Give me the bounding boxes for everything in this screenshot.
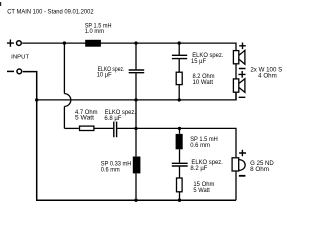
node junction top x136 xyxy=(134,41,137,44)
svg-text:5 Watt: 5 Watt xyxy=(75,115,94,121)
svg-text:2x W 100 S: 2x W 100 S xyxy=(250,67,282,73)
wire series link tweeters xyxy=(235,64,237,79)
speaker tweeter 1 W100S box xyxy=(233,51,238,64)
speaker tweeter 1 cone xyxy=(239,50,245,64)
resistor R 15 Ohm 5 Watt xyxy=(177,178,183,192)
node junction top x64 xyxy=(63,41,66,44)
svg-text:1.0 mm: 1.0 mm xyxy=(85,29,104,35)
svg-text:6.8 µF: 6.8 µF xyxy=(104,116,121,122)
wire xyxy=(117,127,136,129)
wire tweeter2 to return xyxy=(235,93,237,101)
svg-text:15 µF: 15 µF xyxy=(191,59,206,65)
wire minus lead and bottom rail xyxy=(23,72,236,201)
svg-text:INPUT: INPUT xyxy=(11,54,29,60)
svg-text:0.6 mm: 0.6 mm xyxy=(190,143,210,149)
wire hop over crossing xyxy=(64,94,70,107)
wire branch x=136 top xyxy=(135,43,137,69)
node junction rail2 x136 xyxy=(134,127,137,130)
svg-text:8 Ohm: 8 Ohm xyxy=(250,167,269,173)
wire branch x=178.7 top xyxy=(178,43,180,55)
inductor SP 1.5 mH 1.0 mm xyxy=(85,40,101,47)
plus sign tweeter1 xyxy=(239,43,246,50)
minus sign tweeter2 xyxy=(239,96,246,98)
wire branch x=179.5 lower xyxy=(179,128,181,133)
node junction bottom x179 xyxy=(178,199,181,202)
speaker woofer G25ND box xyxy=(232,158,239,171)
terminal plus input xyxy=(17,41,22,46)
wire xyxy=(135,173,137,200)
plus sign woofer xyxy=(239,150,246,156)
capacitor ELKO spez 6.8 uF xyxy=(114,122,117,138)
node junction mid x136 xyxy=(134,98,137,101)
wire branch x=64 upper xyxy=(63,43,65,94)
node junction mid x36 xyxy=(35,98,38,101)
wire xyxy=(179,149,181,162)
svg-text:4 Ohm: 4 Ohm xyxy=(258,74,277,80)
svg-text:10 µF: 10 µF xyxy=(97,73,112,79)
svg-text:0.6 mm: 0.6 mm xyxy=(101,168,120,174)
svg-text:SP 0.33 mH: SP 0.33 mH xyxy=(101,161,132,167)
wire plus rail top xyxy=(22,43,236,50)
inductor SP 1.5 mH 0.6 mm xyxy=(176,134,183,149)
node junction top x179 xyxy=(178,41,181,44)
wire woofer to bottom rail xyxy=(235,172,237,201)
wire xyxy=(178,85,180,100)
plus sign tweeter2 xyxy=(238,71,245,78)
wire xyxy=(179,167,181,178)
wire xyxy=(135,73,137,156)
capacitor ELKO spez 8.2 uF xyxy=(172,163,188,166)
node junction mid x179 xyxy=(178,98,181,101)
node junction bottom x136 xyxy=(134,199,137,202)
plus sign input xyxy=(7,40,14,47)
resistor R 4.7 Ohm 5 Watt xyxy=(80,126,94,130)
node junction rail2 x179 xyxy=(178,127,181,130)
minus sign tweeter1 xyxy=(239,68,246,70)
speaker tweeter 2 W100S box xyxy=(233,79,238,92)
svg-text:10 Watt: 10 Watt xyxy=(193,80,214,86)
capacitor ELKO spez 15 uF xyxy=(172,55,187,58)
wire branch x=64 lower xyxy=(63,106,65,128)
wire lowpass branch left xyxy=(64,127,78,129)
svg-text:8.2 µF: 8.2 µF xyxy=(190,166,207,172)
minus sign input xyxy=(7,70,14,72)
capacitor ELKO spez 10 uF xyxy=(129,70,145,73)
scan speck top left xyxy=(0,2,1,6)
resistor R 8.2 Ohm 10 Watt xyxy=(176,72,182,84)
inductor SP 0.33 mH 0.6 mm xyxy=(133,157,141,174)
svg-text:5 Watt: 5 Watt xyxy=(193,188,210,194)
wire mid rail y=128.4 to woofer xyxy=(136,128,236,157)
wire xyxy=(179,192,181,200)
speaker tweeter 2 cone xyxy=(239,79,245,93)
svg-text:CT MAIN 100 - Stand 09.01.2002: CT MAIN 100 - Stand 09.01.2002 xyxy=(7,10,94,16)
wire xyxy=(178,59,180,72)
minus sign woofer xyxy=(239,175,246,177)
wire mid return y=100 xyxy=(37,93,236,100)
speaker woofer dome xyxy=(239,160,245,171)
wire xyxy=(94,127,113,129)
terminal minus input xyxy=(17,69,22,74)
